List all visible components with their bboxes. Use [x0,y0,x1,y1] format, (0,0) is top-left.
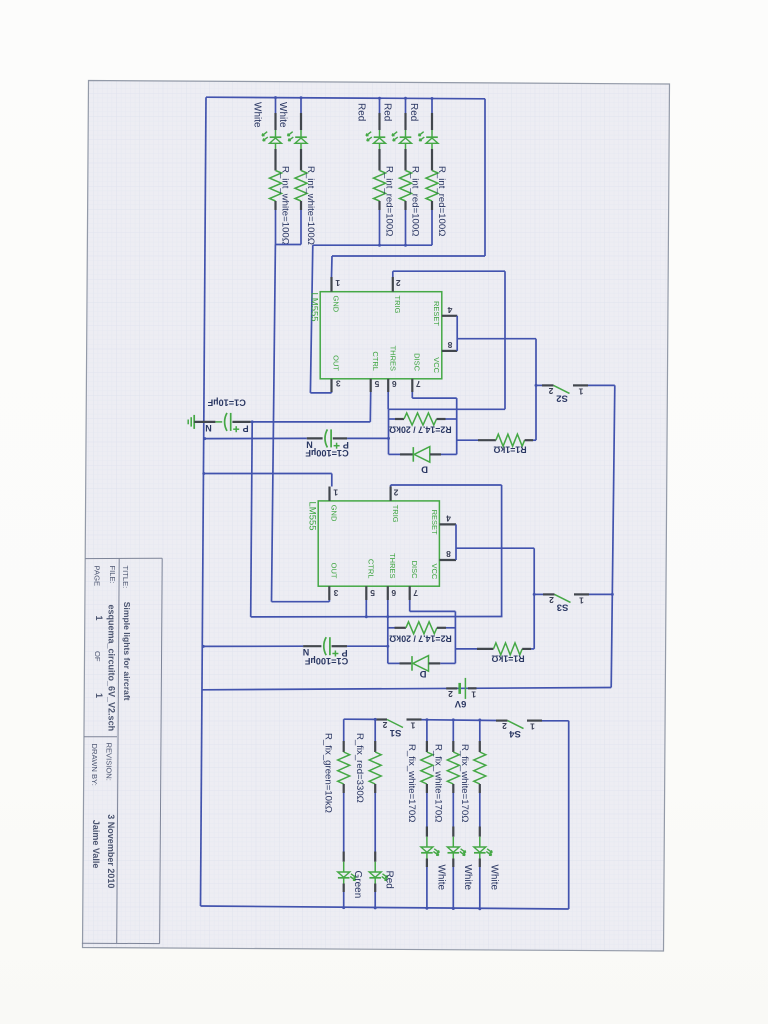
svg-text:Red: Red [408,103,419,121]
svg-text:1: 1 [94,693,104,698]
title block divider vertical [117,558,120,943]
switch S2 [536,384,542,386]
battery 6V [446,687,457,689]
svg-text:R_fix_red=330Ω: R_fix_red=330Ω [354,733,365,803]
wire U1 DISC dogleg [411,392,413,398]
wire U2 TRIG-THRES loop [390,485,392,487]
wire white1 to LED [426,793,428,827]
pin 2 TRIG U1 [392,277,394,292]
svg-text:REVISION:: REVISION: [104,743,113,781]
svg-text:Red: Red [384,871,395,889]
branch red: wire from switch row [374,719,376,741]
switch S4 [496,719,508,721]
svg-text:R_fix_white=170Ω: R_fix_white=170Ω [406,744,417,822]
svg-text:R2=14.7 / 20kΩ: R2=14.7 / 20kΩ [389,425,452,435]
svg-text:LM555: LM555 [309,293,320,322]
wire white3 to LED [479,793,481,827]
wire switch row middle segment [422,719,497,722]
wire U2 CTRL down [365,600,367,617]
svg-text:D: D [421,464,428,475]
resistor R_int_red1 [374,171,386,202]
wire white LEDs to U2 OUT (long vertical) [272,245,276,602]
svg-text:3 November 2010: 3 November 2010 [106,814,116,888]
wire red to LED [374,793,376,852]
svg-text:D: D [419,668,426,679]
branch white3: wire from switch row [479,720,481,741]
pin 2 TRIG U2 [390,487,392,501]
svg-text:P: P [243,424,249,434]
wire U1 GND to top rail [331,256,334,277]
svg-text:White: White [252,102,263,128]
pin 6 THRES U1 [387,379,389,392]
capacitor C1=100uF (U2) [203,645,303,647]
svg-text:R1=1kΩ: R1=1kΩ [493,445,526,455]
svg-text:4: 4 [447,305,452,315]
wire white2 to bottom rail [452,867,454,909]
svg-text:OUT: OUT [332,355,341,371]
LED White (white2) [447,847,459,852]
svg-text:VCC: VCC [432,357,441,373]
wire CTRL/THRES row U2 [251,616,503,618]
svg-text:TRIG: TRIG [391,505,400,523]
svg-text:7: 7 [416,379,421,389]
LED Red3 branch [431,98,433,113]
svg-text:R_fix_white=170Ω: R_fix_white=170Ω [432,744,443,822]
svg-text:6: 6 [391,588,396,598]
wire U2 GND to left bus [204,473,332,475]
pin 3 OUT U1 [330,379,332,392]
branch white1: wire from switch row [426,720,428,741]
ground symbol [193,415,195,429]
wire U2 RESET/VCC join [455,524,457,560]
svg-text:2: 2 [502,721,507,731]
svg-text:2: 2 [549,595,554,605]
svg-text:2: 2 [393,488,398,498]
resistor R_fix_white=170&#937; (white3) [474,752,486,784]
LED White (white1) [421,847,433,852]
svg-text:esquema_circuito_6V_V2.sch: esquema_circuito_6V_V2.sch [107,605,117,732]
svg-text:C1=100µF: C1=100µF [304,656,348,666]
title block divider horizontal [84,736,117,738]
pin 1 GND U2 [328,487,330,501]
wire S3 net vertical [533,548,535,649]
branch white2: wire from switch row [452,720,454,741]
svg-text:1: 1 [530,721,535,731]
pin 3 OUT U2 [328,586,330,600]
pin 8 VCC U1 [442,350,457,352]
resistor R_int_white1 [270,171,282,202]
pin 5 CTRL U2 [365,586,367,600]
svg-text:6V: 6V [454,698,466,709]
wire white2 to LED [452,793,454,827]
pin 1 GND U1 [330,277,332,292]
diode D (U2) [388,662,400,664]
LED Red1 branch [379,98,381,113]
LED Red2 branch [405,98,407,113]
resistor R_fix_white=170&#937; (white2) [447,752,459,784]
resistor R2 (U1) 14.7/20k [389,418,396,420]
LED White (white3) [474,847,486,852]
schematic sheet background [83,81,670,952]
svg-text:1: 1 [335,278,340,288]
resistor R_fix_white=170&#937; (white1) [421,752,433,784]
svg-text:Green: Green [352,871,363,899]
wire U2 DISC dogleg [409,600,411,611]
svg-text:VCC: VCC [430,564,439,580]
wire white branches join [275,210,277,245]
svg-text:S3: S3 [557,601,569,612]
svg-text:OF: OF [93,651,102,662]
pin 4 RESET U2 [439,523,456,525]
svg-text:RESET: RESET [430,510,439,535]
wire S4 to bottom rail [542,720,569,722]
wire U2 OUT down [328,600,330,602]
svg-text:1: 1 [471,689,476,699]
svg-text:3: 3 [333,588,338,598]
svg-text:2: 2 [448,689,453,699]
LED White2 branch [300,97,302,113]
svg-text:R_fix_green=10kΩ: R_fix_green=10kΩ [323,733,334,813]
LED Green (green) [338,872,350,877]
wire bottom rail [201,906,569,909]
wire white1 to bottom rail [426,867,428,908]
svg-text:N: N [303,647,310,657]
op-amp timer U2 LM555 body [318,501,439,586]
svg-text:R_int_red=100Ω: R_int_red=100Ω [410,166,421,236]
svg-text:7: 7 [413,588,418,598]
svg-text:Simple lights for aircraft: Simple lights for aircraft [122,602,132,701]
resistor R1=1k (U1) [457,439,478,441]
svg-text:DRAWN BY:: DRAWN BY: [90,744,99,786]
svg-text:White: White [277,102,288,128]
svg-text:RESET: RESET [432,301,441,326]
capacitor C1=10uF (CTRL cap U1) [194,421,215,423]
svg-text:White: White [462,865,473,891]
wire bottom switch row [344,718,376,720]
wire red branches join [379,210,381,245]
svg-text:S4: S4 [508,728,520,739]
wire green to LED [343,793,345,852]
svg-text:S2: S2 [556,392,568,403]
svg-text:2: 2 [396,278,401,288]
svg-text:R_int_white=100Ω: R_int_white=100Ω [305,166,316,245]
svg-text:6: 6 [392,379,397,389]
pin 7 DISC U1 [411,379,413,392]
wire R2/D block verticals U1 [388,409,390,454]
svg-text:White: White [435,865,446,891]
svg-text:Red: Red [382,103,393,121]
branch green: wire from switch row [343,719,345,741]
svg-text:TITLE:: TITLE: [121,566,130,589]
svg-text:OUT: OUT [330,563,339,579]
wire R2/D block verticals U2 [387,617,389,664]
resistor R_int_red3 [426,171,438,202]
svg-text:C1=10µF: C1=10µF [207,398,246,408]
switch S3 [534,593,543,595]
svg-text:1: 1 [579,595,584,605]
svg-text:THRES: THRES [388,346,397,371]
wire U1 TRIG-THRES loop [392,271,394,277]
svg-text:PAGE: PAGE [93,566,102,587]
svg-text:CTRL: CTRL [371,351,380,371]
svg-text:GND: GND [330,505,339,522]
svg-text:CTRL: CTRL [367,559,376,579]
svg-text:R_fix_white=170Ω: R_fix_white=170Ω [459,744,470,822]
wire battery row horizontal [203,688,612,690]
svg-text:DISC: DISC [410,561,419,580]
op-amp timer U1 LM555 body [320,292,442,379]
svg-text:R_int_white=100Ω: R_int_white=100Ω [280,166,291,245]
svg-text:FILE:: FILE: [108,566,117,584]
svg-text:C1=100µF: C1=100µF [305,448,349,458]
wire right bus vertical (battery + to switches) [611,385,615,687]
svg-text:DISC: DISC [413,353,422,372]
svg-text:3: 3 [336,378,341,388]
diode D (U1) [389,453,401,455]
svg-text:R1=1kΩ: R1=1kΩ [491,653,524,663]
pin 7 DISC U2 [409,586,411,600]
svg-text:5: 5 [370,588,375,598]
pin 4 RESET U1 [442,315,457,317]
LED White1 branch [275,97,277,113]
svg-text:THRES: THRES [388,553,397,578]
wire red LEDs to U1 OUT [310,245,312,393]
resistor R2 (U2) 14.7/20k [388,627,395,629]
svg-text:8: 8 [447,340,452,350]
svg-text:1: 1 [94,616,104,621]
svg-text:R_int_red=100Ω: R_int_red=100Ω [436,166,447,236]
svg-text:2: 2 [548,386,553,396]
resistor R_fix_red=330&#937; (red) [369,752,381,784]
svg-text:S1: S1 [389,727,401,738]
switch S1 [376,718,388,720]
wire red to bottom rail [374,892,376,908]
svg-text:LM555: LM555 [307,502,318,531]
wire S2 net vertical [535,339,537,441]
resistor R1=1k (U2) [455,648,477,650]
pin 8 VCC U2 [439,559,456,561]
svg-text:1: 1 [578,386,583,396]
wire U1 CTRL to C1 cap [369,392,371,422]
svg-text:5: 5 [374,379,379,389]
resistor R_int_white2 [295,171,307,202]
wire green to bottom rail [343,892,345,908]
pin 5 CTRL U1 [370,379,372,392]
junction dots U2 row [365,615,368,618]
svg-text:R_int_red=100Ω: R_int_red=100Ω [384,166,395,236]
svg-text:N: N [205,423,212,433]
svg-text:Jaime Valle: Jaime Valle [91,820,101,869]
title block outline [85,557,162,559]
svg-text:4: 4 [446,513,451,523]
svg-text:GND: GND [332,296,341,313]
svg-text:R2=14.7 / 20kΩ: R2=14.7 / 20kΩ [389,633,452,643]
wire U1 RESET/VCC join [456,316,458,351]
svg-text:White: White [488,865,499,891]
svg-text:1: 1 [410,720,415,730]
capacitor C1=100uF (U1) [205,437,307,439]
resistor R_int_red2 [400,171,412,202]
wire white3 to bottom rail [479,867,481,909]
pin 6 THRES U2 [387,586,389,600]
svg-text:Red: Red [356,103,367,121]
svg-text:N: N [306,439,313,449]
svg-text:2: 2 [382,720,387,730]
wire top rail (GND net of U1) [206,97,485,99]
resistor R_fix_green=10k&#937; (green) [338,752,350,784]
wire left bus vertical [201,97,207,906]
svg-text:TRIG: TRIG [393,296,402,314]
svg-text:1: 1 [333,488,338,498]
wire C1 to U2 CTRL (long vertical) [251,422,253,617]
LED Red (red) [369,872,381,877]
svg-text:8: 8 [446,549,451,559]
